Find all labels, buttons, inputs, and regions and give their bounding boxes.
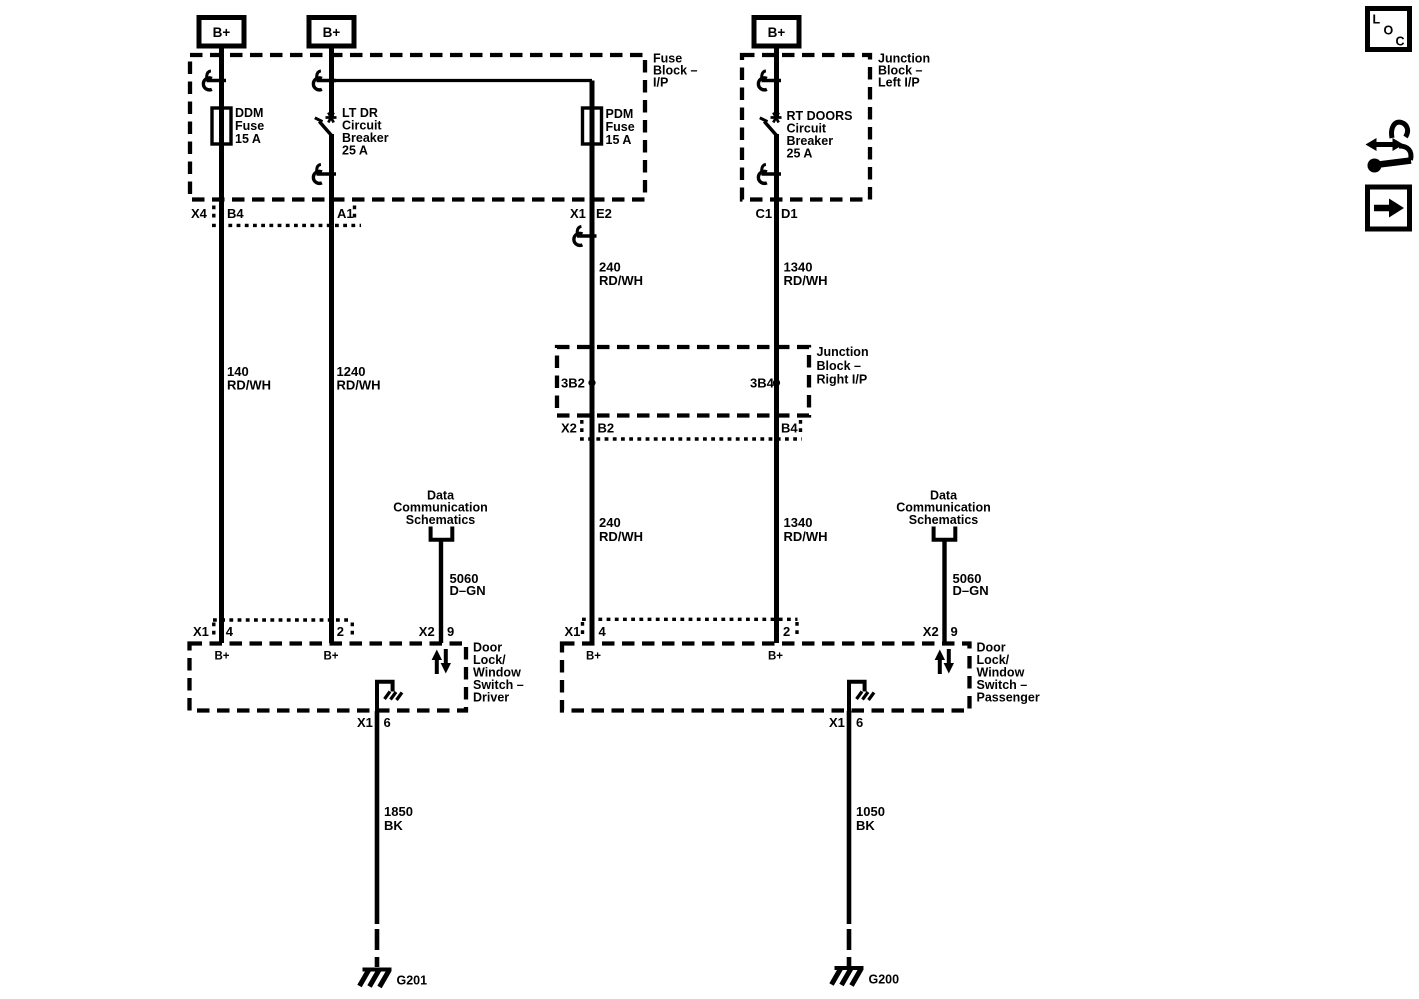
svg-text:B+: B+	[215, 650, 230, 662]
svg-text:O: O	[1384, 24, 1394, 38]
connector X2 dotted outline	[580, 420, 802, 439]
svg-text:Right I/P: Right I/P	[817, 373, 868, 387]
circuit breaker RT DOORS contact asterisk	[771, 113, 782, 123]
svg-text:B+: B+	[324, 650, 339, 662]
off-page bracket driver	[429, 527, 455, 540]
ground wire passenger solid	[847, 711, 852, 924]
door lock window switch passenger label	[977, 641, 1040, 705]
inline connector clip on wire C below fuse block	[574, 226, 597, 245]
svg-text:3B4: 3B4	[750, 376, 775, 391]
svg-text:PDM: PDM	[606, 107, 634, 121]
svg-text:RD/WH: RD/WH	[784, 273, 828, 288]
svg-text:B+: B+	[323, 25, 341, 40]
circuit breaker RT DOORS blade	[760, 118, 777, 136]
svg-text:15 A: 15 A	[606, 133, 632, 147]
svg-text:BK: BK	[384, 818, 403, 833]
connector X1 row passenger switch	[565, 624, 958, 639]
junction block left I/P label	[878, 52, 930, 90]
connector X1 pin 6 labels passenger	[829, 715, 863, 730]
wire A (DDM feed, 140 RD/WH vertical)	[219, 45, 224, 643]
wire label 1050 BK	[856, 804, 885, 833]
svg-text:Passenger: Passenger	[977, 691, 1040, 705]
wire B (LT DR feed lower segment, 1240 RD/WH)	[329, 134, 334, 643]
jump arrow icon box	[1368, 187, 1410, 229]
svg-text:B+: B+	[768, 650, 783, 662]
connector X4 dotted outline	[212, 206, 361, 226]
wire jumper B to C inside fuse block	[332, 79, 593, 82]
connector X1/E2 labels (PDM exit)	[570, 206, 612, 221]
svg-text:X1: X1	[565, 624, 581, 639]
svg-text:X2: X2	[419, 624, 435, 639]
fuse block I/P label	[653, 52, 698, 90]
connector clip on wire B bottom	[313, 164, 336, 183]
wire 5060 D-GN driver	[439, 540, 443, 643]
svg-text:Block –: Block –	[817, 359, 862, 373]
wire label 5060 D-GN passenger	[953, 571, 989, 598]
up-down arrows passenger switch	[935, 649, 954, 674]
svg-text:3B2: 3B2	[561, 376, 585, 391]
wire D (RT DOORS feed upper segment)	[774, 45, 779, 119]
svg-text:Junction: Junction	[817, 345, 869, 359]
svg-text:Fuse: Fuse	[235, 119, 264, 133]
off-page bracket passenger	[932, 527, 958, 540]
svg-text:Driver: Driver	[473, 691, 509, 705]
ground G201 symbol	[360, 970, 392, 988]
svg-text:C: C	[1396, 35, 1405, 49]
connector X1 pin 6 labels driver	[357, 715, 391, 730]
LT DR circuit breaker label	[342, 106, 389, 158]
connector C1/D1 labels (RT DOORS exit)	[756, 206, 798, 221]
svg-text:B4: B4	[781, 421, 798, 436]
ground G200 symbol	[832, 968, 864, 986]
fuse block I/P dashed outline	[190, 55, 645, 200]
svg-text:X1: X1	[829, 715, 845, 730]
wire label 1240 RD/WH	[337, 364, 381, 393]
B+ terminal RT DOORS breaker	[754, 18, 799, 47]
connector clip on wire D bottom	[758, 164, 781, 183]
svg-text:Schematics: Schematics	[406, 513, 476, 527]
DDM fuse label	[235, 106, 264, 146]
svg-text:D–GN: D–GN	[450, 583, 486, 598]
ground wire driver dashed	[375, 929, 380, 967]
wire label 240 RD/WH lower	[599, 515, 643, 544]
svg-text:Left I/P: Left I/P	[878, 76, 920, 90]
svg-text:15 A: 15 A	[235, 132, 261, 146]
connector clip on wire D top	[758, 71, 781, 90]
wire label 240 RD/WH upper	[599, 260, 643, 289]
PDM fuse label	[606, 107, 635, 147]
svg-text:X1: X1	[193, 624, 209, 639]
fuse PDM symbol	[583, 108, 602, 144]
svg-text:25 A: 25 A	[342, 144, 368, 158]
svg-text:C1: C1	[756, 206, 773, 221]
junction block right I/P label	[817, 345, 869, 387]
door lock window switch passenger dashed outline	[562, 644, 970, 711]
route arrows icon	[1379, 122, 1411, 164]
connector X1 dotted outline passenger switch	[582, 619, 798, 637]
svg-text:RD/WH: RD/WH	[337, 377, 381, 392]
wire B (LT DR feed upper segment)	[329, 45, 334, 119]
svg-text:B2: B2	[598, 421, 615, 436]
svg-text:D1: D1	[781, 206, 798, 221]
svg-text:Schematics: Schematics	[909, 513, 979, 527]
data communication schematics reference passenger	[896, 488, 990, 527]
wire A through DDM fuse	[219, 106, 224, 146]
connector clip on wire B top	[313, 71, 336, 90]
B+ terminal LT DR breaker	[309, 18, 354, 47]
svg-text:Fuse: Fuse	[606, 120, 635, 134]
svg-text:B4: B4	[227, 206, 244, 221]
svg-text:9: 9	[951, 624, 958, 639]
door lock window switch driver label	[473, 641, 524, 705]
svg-text:B+: B+	[213, 25, 231, 40]
case ground link passenger switch	[849, 682, 874, 711]
wire label 1340 RD/WH upper	[784, 260, 828, 289]
svg-text:240: 240	[599, 515, 621, 530]
junction block left I/P dashed outline	[742, 55, 870, 200]
svg-text:RD/WH: RD/WH	[599, 529, 643, 544]
wire label 1850 BK	[384, 804, 413, 833]
svg-text:X2: X2	[561, 421, 577, 436]
connector X2 row labels (junction block right)	[561, 421, 798, 436]
svg-text:1050: 1050	[856, 804, 885, 819]
up-down arrows driver switch	[432, 649, 451, 674]
svg-text:25 A: 25 A	[787, 147, 813, 161]
node 3B2	[561, 376, 596, 391]
circuit breaker LT DR contact asterisk	[326, 113, 337, 123]
svg-text:RD/WH: RD/WH	[227, 377, 271, 392]
svg-text:4: 4	[226, 624, 234, 639]
fuse DDM symbol	[212, 108, 231, 144]
connector X1 row driver switch	[193, 624, 454, 639]
connector X4 row labels	[191, 206, 354, 221]
svg-text:BK: BK	[856, 818, 875, 833]
svg-text:D–GN: D–GN	[953, 583, 989, 598]
svg-text:B+: B+	[768, 25, 786, 40]
svg-text:G201: G201	[397, 974, 428, 988]
RT DOORS circuit breaker label	[787, 109, 853, 161]
wire C through PDM fuse	[590, 106, 595, 146]
svg-text:RD/WH: RD/WH	[784, 529, 828, 544]
junction block right I/P dashed outline	[557, 347, 809, 416]
svg-text:E2: E2	[596, 206, 612, 221]
svg-text:X1: X1	[357, 715, 373, 730]
connector X1 dotted outline driver switch	[213, 620, 352, 638]
svg-text:2: 2	[783, 624, 790, 639]
svg-text:2: 2	[337, 624, 344, 639]
svg-text:6: 6	[384, 715, 391, 730]
svg-text:4: 4	[599, 624, 607, 639]
svg-text:6: 6	[856, 715, 863, 730]
wire D (RT DOORS feed lower segment, 1340 RD/WH)	[774, 134, 779, 643]
svg-text:L: L	[1373, 13, 1381, 27]
svg-text:X1: X1	[570, 206, 586, 221]
ground wire passenger dashed	[847, 929, 852, 967]
wire label 5060 D-GN driver	[450, 571, 486, 598]
svg-text:X2: X2	[923, 624, 939, 639]
svg-text:B+: B+	[586, 650, 601, 662]
svg-text:A1: A1	[337, 206, 354, 221]
svg-text:X4: X4	[191, 206, 208, 221]
case ground link driver switch	[377, 682, 402, 711]
B+ terminal driver fuse	[199, 18, 244, 47]
svg-text:I/P: I/P	[653, 76, 668, 90]
svg-text:G200: G200	[869, 973, 900, 987]
svg-text:1850: 1850	[384, 804, 413, 819]
svg-text:RD/WH: RD/WH	[599, 273, 643, 288]
wire 5060 D-GN passenger	[942, 540, 946, 643]
ground wire driver solid	[375, 711, 380, 924]
svg-text:1340: 1340	[784, 515, 813, 530]
connector clip on wire A	[203, 71, 226, 90]
wire label 1340 RD/WH lower	[784, 515, 828, 544]
wire label 140 RD/WH	[227, 364, 271, 393]
data communication schematics reference driver	[393, 488, 487, 527]
node 3B4	[750, 376, 780, 391]
svg-text:DDM: DDM	[235, 106, 263, 120]
svg-text:9: 9	[447, 624, 454, 639]
wire C (PDM feed, 240 RD/WH vertical)	[590, 81, 595, 644]
circuit breaker LT DR blade	[315, 118, 332, 136]
LOC icon box	[1368, 9, 1410, 50]
door lock window switch driver dashed outline	[190, 644, 467, 711]
